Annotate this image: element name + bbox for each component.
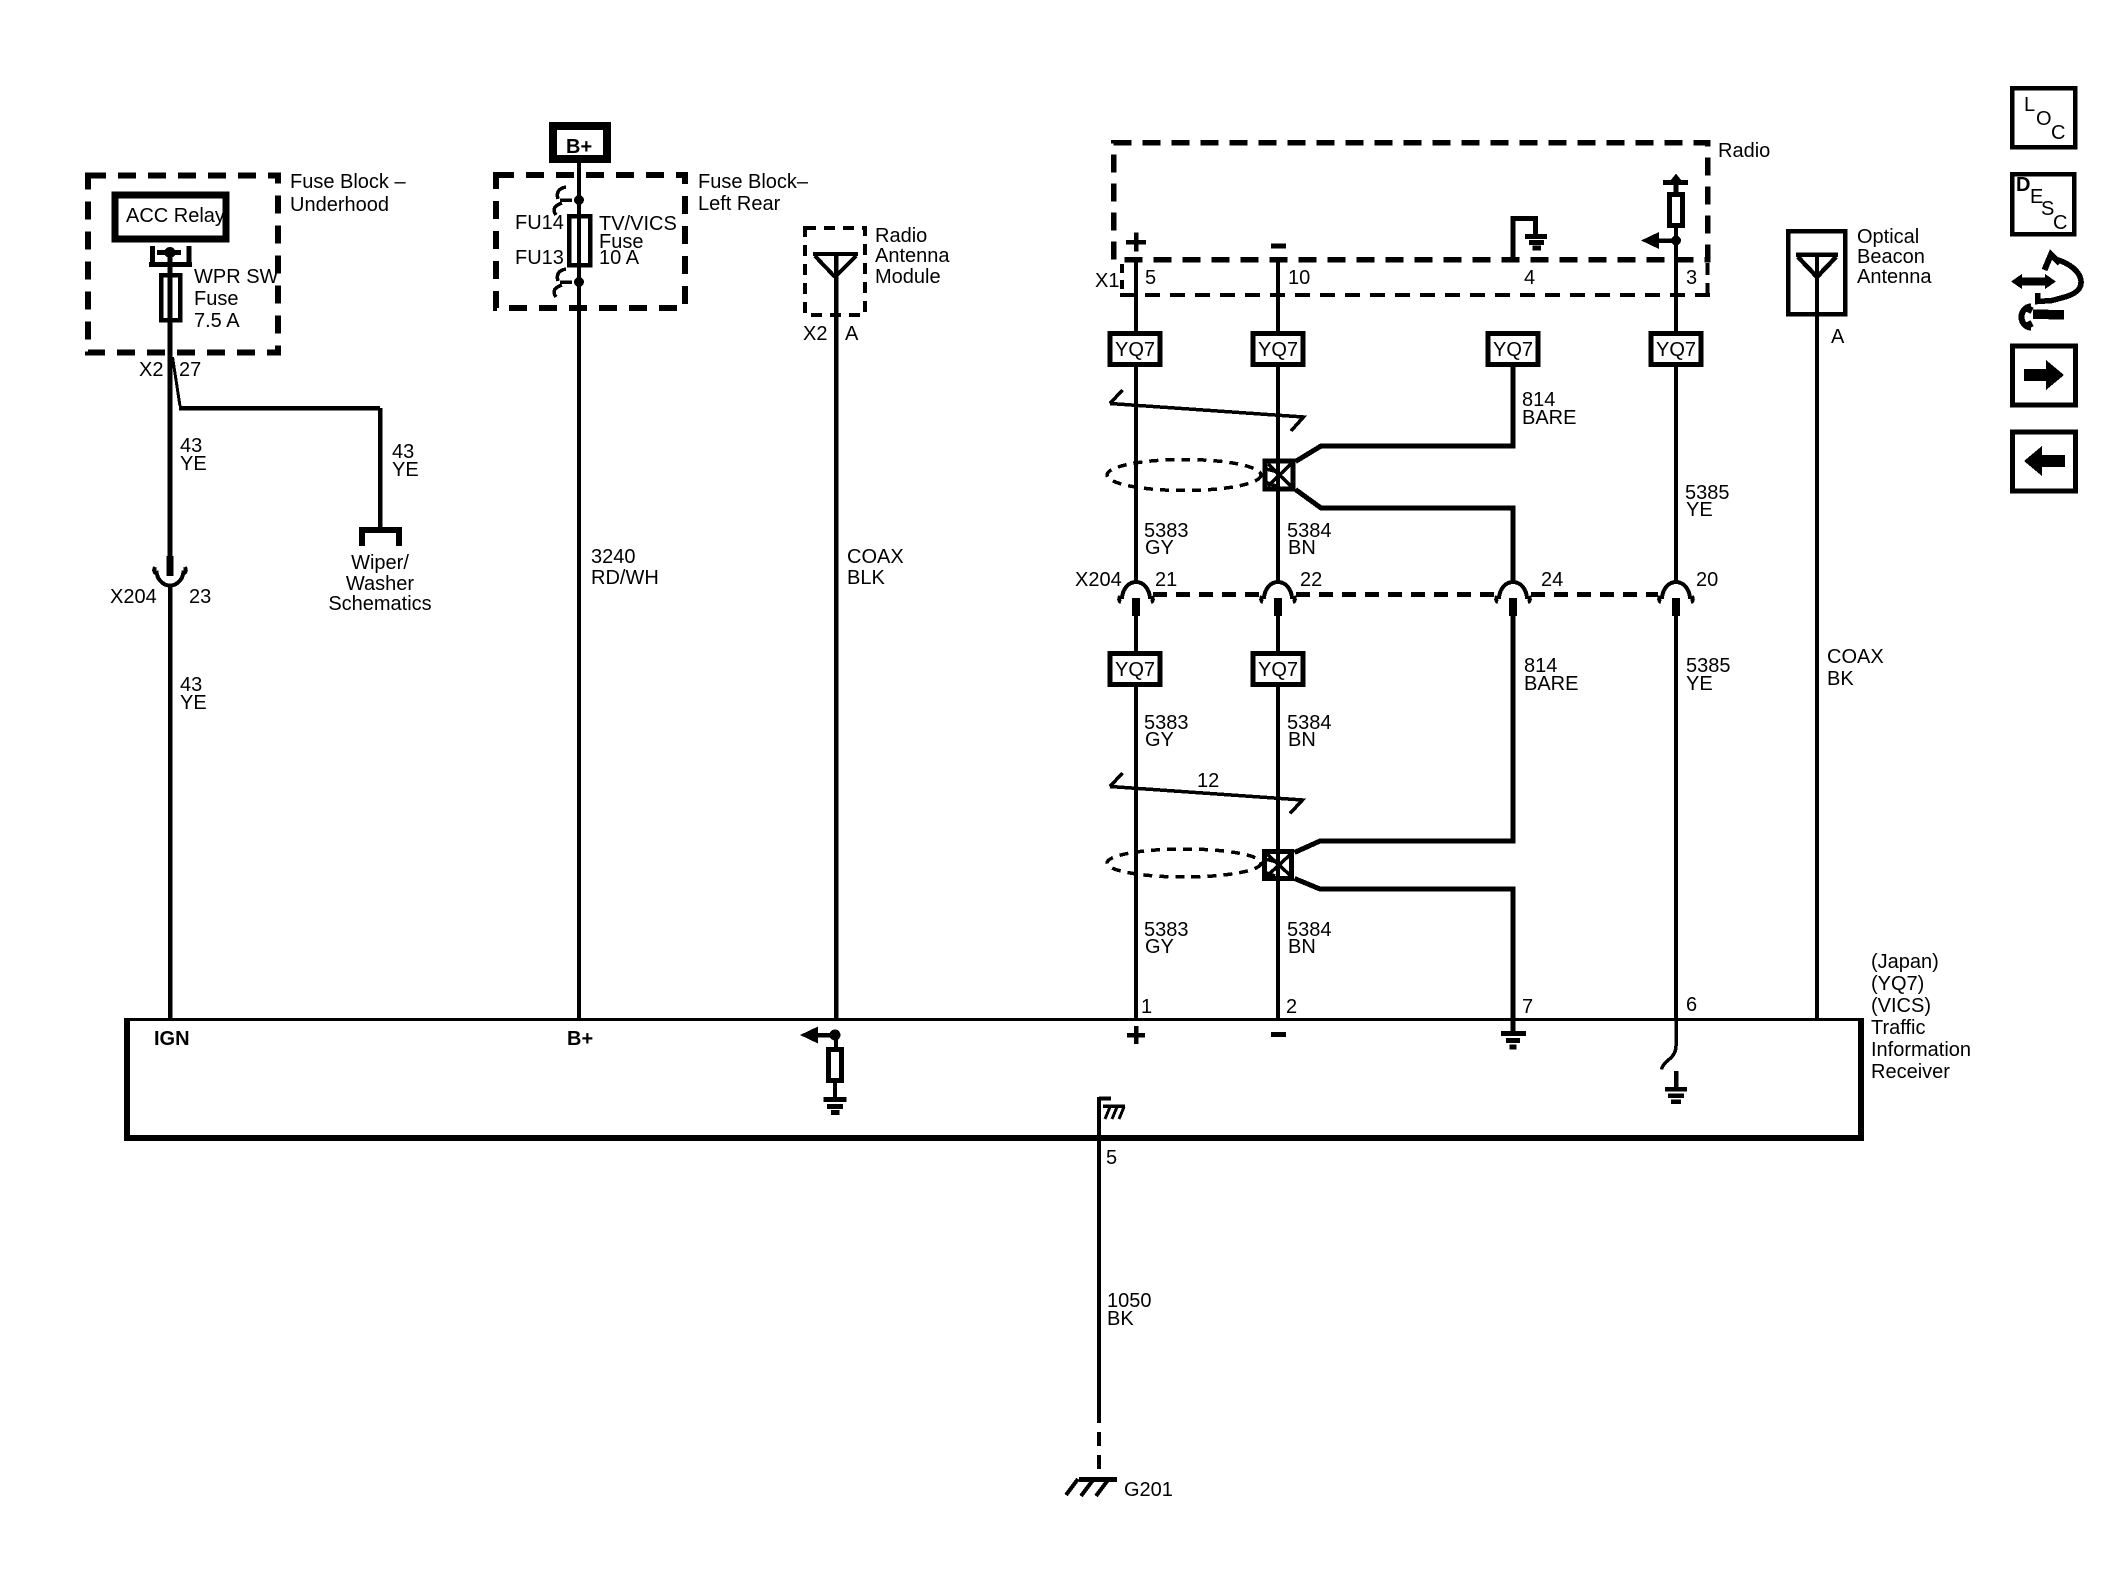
connector X204 cup pin 22 [1261, 582, 1295, 602]
svg-text:Antenna: Antenna [875, 245, 950, 267]
svg-text:Beacon: Beacon [1857, 246, 1925, 268]
svg-text:X2: X2 [803, 323, 827, 345]
wire 5384 BN radio pin 10 [1276, 260, 1280, 332]
svg-text:X2: X2 [139, 359, 163, 381]
wire 43 YE from ACC relay through fuse to X204 [168, 252, 173, 556]
svg-text:A: A [845, 323, 859, 345]
svg-text:D: D [2016, 174, 2030, 196]
svg-text:Fuse: Fuse [194, 288, 238, 310]
relay terminal junction dot [165, 247, 176, 258]
radio internal antenna tip arrow [1671, 174, 1681, 181]
radio internal arrow shaft pin 3 [1659, 238, 1676, 243]
ground G201 [1079, 1477, 1117, 1482]
svg-text:C: C [2053, 212, 2067, 234]
receiver resistor to ground wire [833, 1081, 837, 1097]
svg-text:ACC Relay: ACC Relay [126, 205, 225, 227]
svg-text:10: 10 [1288, 267, 1310, 289]
twisted pair symbol lower [1110, 773, 1303, 814]
svg-text:FU14: FU14 [515, 212, 564, 234]
svg-text:21: 21 [1155, 569, 1177, 591]
wire 814 BARE shield drain lower [1295, 616, 1514, 1019]
connector X204 cup pin 24 [1496, 582, 1530, 602]
twisted pair dashed ellipse upper [1107, 460, 1261, 491]
connector X204 pin 23 cup [154, 567, 186, 586]
svg-text:YE: YE [1686, 499, 1713, 521]
svg-text:A: A [1831, 326, 1845, 348]
antenna symbol radio antenna module [813, 254, 858, 277]
minus sign radio pin 10 [1271, 244, 1286, 249]
connector X204 dashed line segment 1 [1153, 592, 1261, 597]
fuse block underhood dashed box [88, 176, 278, 353]
svg-text:GY: GY [1145, 537, 1174, 559]
wire 5383 GY radio pin 5 [1134, 258, 1138, 332]
svg-text:BK: BK [1827, 668, 1854, 690]
svg-text:Radio: Radio [875, 225, 927, 247]
svg-text:YQ7: YQ7 [1115, 659, 1155, 681]
splice pack YQ7 box 4 [1651, 334, 1701, 365]
svg-text:Schematics: Schematics [328, 593, 431, 615]
shield splice X strokes lower [1264, 853, 1292, 877]
fuse clip upper dot [574, 195, 584, 205]
splice pack YQ7 box 3 [1488, 334, 1538, 365]
svg-text:27: 27 [179, 359, 201, 381]
svg-text:BN: BN [1288, 936, 1316, 958]
fuse WPR SW 7.5A [161, 275, 180, 320]
svg-text:COAX: COAX [847, 546, 904, 568]
svg-text:5: 5 [1145, 267, 1156, 289]
B+ power box [553, 126, 607, 159]
connector X204 dashed line segment 3 [1531, 592, 1658, 597]
svg-text:(VICS): (VICS) [1871, 995, 1931, 1017]
svg-text:YQ7: YQ7 [1115, 339, 1155, 361]
radio dashed box [1114, 143, 1708, 260]
svg-text:23: 23 [189, 586, 211, 608]
receiver switch pin 6 [1662, 1021, 1677, 1070]
receiver coax arrow shaft [818, 1033, 835, 1038]
wire 5383 GY X204 to lower YQ7 [1134, 616, 1138, 654]
radio internal resistor pin 3 [1670, 195, 1683, 226]
svg-text:BARE: BARE [1522, 407, 1576, 429]
svg-text:Washer: Washer [346, 573, 415, 595]
fuse clip upper [554, 187, 572, 215]
svg-text:2: 2 [1286, 996, 1297, 1018]
splice pack YQ7 lower box 2 [1253, 654, 1303, 685]
wire 5383 GY to receiver pin 1 [1134, 686, 1138, 1019]
svg-text:7: 7 [1522, 996, 1533, 1018]
radio internal ground symbol [1525, 237, 1547, 249]
svg-text:GY: GY [1145, 936, 1174, 958]
svg-text:Wiper/: Wiper/ [351, 552, 409, 574]
svg-text:22: 22 [1300, 569, 1322, 591]
splice pack YQ7 box 1 [1110, 334, 1160, 365]
wire 5385 YE to receiver pin 6 [1674, 616, 1678, 1019]
svg-text:FU13: FU13 [515, 247, 564, 269]
ACC Relay K box [115, 195, 226, 239]
svg-text:3: 3 [1686, 267, 1697, 289]
fuse clip lower dot [574, 277, 584, 287]
svg-text:Module: Module [875, 266, 941, 288]
svg-text:(Japan): (Japan) [1871, 951, 1939, 973]
icon curved route arrow head [2045, 255, 2061, 271]
splice pack YQ7 box 2 [1253, 334, 1303, 365]
connector X204 cup pin 20 [1659, 582, 1693, 602]
icon DESC box [2012, 174, 2074, 234]
radio internal ground wire pin 4 [1513, 219, 1536, 262]
svg-text:Receiver: Receiver [1871, 1061, 1950, 1083]
wire 5384 BN to receiver pin 2 [1276, 686, 1280, 1019]
shield splice box lower [1265, 852, 1292, 879]
svg-text:BN: BN [1288, 537, 1316, 559]
receiver coax junction dot [830, 1030, 841, 1041]
radio internal junction dot pin 3 [1671, 236, 1681, 246]
radio internal arrow tip triangle [1641, 232, 1659, 249]
svg-text:YQ7: YQ7 [1656, 339, 1696, 361]
receiver minus sign pin 2 [1271, 1032, 1286, 1037]
receiver coax ground symbol [824, 1100, 847, 1113]
plus sign radio pin 5 [1126, 233, 1146, 252]
svg-text:COAX: COAX [1827, 646, 1884, 668]
svg-text:IGN: IGN [154, 1028, 190, 1050]
receiver plus sign pin 1 [1127, 1026, 1145, 1044]
icon wrench handle [2033, 314, 2064, 315]
svg-text:6: 6 [1686, 994, 1697, 1016]
svg-text:BN: BN [1288, 729, 1316, 751]
icon right arrow box [2013, 346, 2076, 405]
connector X1 dashed line [1120, 293, 1710, 297]
fuse clip lower [554, 269, 572, 297]
svg-text:10 A: 10 A [599, 247, 640, 269]
svg-text:L: L [2024, 94, 2035, 116]
svg-text:B+: B+ [567, 1028, 593, 1050]
icon double arrow heads [2011, 274, 2022, 289]
connector X204 cup pin 21 [1119, 582, 1153, 602]
connector X204 male stub pin 24 [1509, 598, 1517, 616]
svg-text:YE: YE [392, 459, 419, 481]
svg-text:X204: X204 [1075, 569, 1122, 591]
receiver internal resistor [829, 1050, 842, 1081]
fuse TV/VICS 10A [569, 216, 590, 265]
svg-text:Left Rear: Left Rear [698, 193, 781, 215]
twisted pair symbol upper [1110, 390, 1304, 431]
splice pack YQ7 lower box 1 [1110, 654, 1160, 685]
relay terminal bracket [149, 246, 192, 265]
svg-text:BARE: BARE [1524, 673, 1578, 695]
twisted pair dashed ellipse lower [1107, 849, 1261, 877]
radio box to X1 connector dashes left [1120, 264, 1124, 294]
svg-text:(YQ7): (YQ7) [1871, 973, 1924, 995]
wire 814 BARE shield drain upper [1296, 366, 1514, 583]
svg-text:YE: YE [1686, 673, 1713, 695]
svg-text:G201: G201 [1124, 1479, 1173, 1501]
receiver ground pin 7 [1511, 1021, 1516, 1031]
svg-text:GY: GY [1145, 729, 1174, 751]
svg-text:Optical: Optical [1857, 226, 1919, 248]
wire branch diagonal at X2 27 [173, 357, 181, 406]
receiver coax arrow head [800, 1027, 818, 1044]
icon right arrow [2024, 369, 2046, 381]
wire 1050 BK solid [1097, 1140, 1101, 1409]
connector X204 male stub pin 21 [1132, 598, 1140, 616]
svg-text:RD/WH: RD/WH [591, 567, 659, 589]
icon wrench jaw [2022, 307, 2032, 328]
wire 3240 RD/WH from B+ to receiver pin 3 [577, 163, 581, 1019]
optical beacon antenna box [1788, 231, 1845, 314]
svg-text:3240: 3240 [591, 546, 636, 568]
connector X204 pin 23 male stub [167, 556, 174, 576]
svg-text:YQ7: YQ7 [1493, 339, 1533, 361]
svg-text:O: O [2036, 108, 2052, 130]
wire 43 YE from X204 to receiver pin 4 [168, 585, 173, 1019]
svg-text:Antenna: Antenna [1857, 266, 1932, 288]
svg-text:20: 20 [1696, 569, 1718, 591]
fuse block left rear dashed box [496, 175, 685, 308]
receiver pin 5 internal symbol [1099, 1097, 1111, 1136]
radio internal antenna T-bar pin 3 [1663, 183, 1688, 193]
svg-text:5: 5 [1106, 1147, 1117, 1169]
svg-text:YQ7: YQ7 [1258, 339, 1298, 361]
wire 5385 YE YQ7 to X204 pin 20 [1674, 366, 1678, 583]
shield splice box upper [1265, 461, 1293, 489]
svg-text:Underhood: Underhood [290, 194, 389, 216]
svg-text:X1: X1 [1095, 270, 1119, 292]
off-page bracket wiper/washer [362, 530, 399, 546]
svg-text:Information: Information [1871, 1039, 1971, 1061]
radio antenna module dashed box [805, 228, 865, 315]
icon curved route arrow body [2038, 259, 2082, 302]
svg-text:Fuse Block–: Fuse Block– [698, 171, 809, 193]
svg-text:24: 24 [1541, 569, 1563, 591]
svg-text:Fuse Block –: Fuse Block – [290, 171, 406, 193]
wire 5384 BN X204 to lower YQ7 [1276, 616, 1280, 654]
connector X204 male stub pin 22 [1274, 598, 1282, 616]
connector X204 dashed line segment 2 [1296, 592, 1494, 597]
svg-text:Traffic: Traffic [1871, 1017, 1925, 1039]
svg-text:1: 1 [1141, 996, 1152, 1018]
svg-text:BK: BK [1107, 1308, 1134, 1330]
svg-text:WPR SW: WPR SW [194, 266, 279, 288]
icon left arrow [2042, 455, 2065, 467]
wire branch to wiper/washer [179, 408, 380, 528]
svg-text:YQ7: YQ7 [1258, 659, 1298, 681]
icon double arrow shaft [2021, 278, 2046, 286]
svg-text:Radio: Radio [1718, 140, 1770, 162]
svg-text:4: 4 [1524, 267, 1535, 289]
radio internal wire pin 3 [1674, 228, 1678, 332]
svg-text:12: 12 [1197, 770, 1219, 792]
wire COAX BK optical beacon to receiver [1815, 257, 1819, 1019]
wire 5384 BN YQ7 to X204 pin 22 [1276, 366, 1280, 583]
svg-text:X204: X204 [110, 586, 157, 608]
icon LOC box [2012, 88, 2075, 147]
shield splice X strokes upper [1265, 462, 1293, 488]
svg-text:BLK: BLK [847, 567, 885, 589]
radio box to X1 connector dashes right [1706, 263, 1710, 298]
receiver switch ground pin 6 [1674, 1071, 1679, 1087]
svg-text:7.5 A: 7.5 A [194, 310, 240, 332]
wire 5383 GY YQ7 to X204 pin 21 [1134, 366, 1138, 583]
svg-text:YE: YE [180, 453, 207, 475]
connector X204 male stub pin 20 [1672, 598, 1680, 616]
traffic information receiver box [125, 1018, 1862, 1021]
svg-text:B+: B+ [566, 136, 592, 158]
optical beacon antenna symbol [1796, 255, 1838, 278]
wire 1050 BK dashed [1097, 1409, 1101, 1477]
receiver coax wire to resistor [834, 1035, 838, 1049]
svg-text:C: C [2051, 122, 2065, 144]
icon left arrow box [2013, 432, 2076, 491]
svg-text:YE: YE [180, 692, 207, 714]
wire COAX BLK from antenna module to receiver [834, 255, 839, 1019]
